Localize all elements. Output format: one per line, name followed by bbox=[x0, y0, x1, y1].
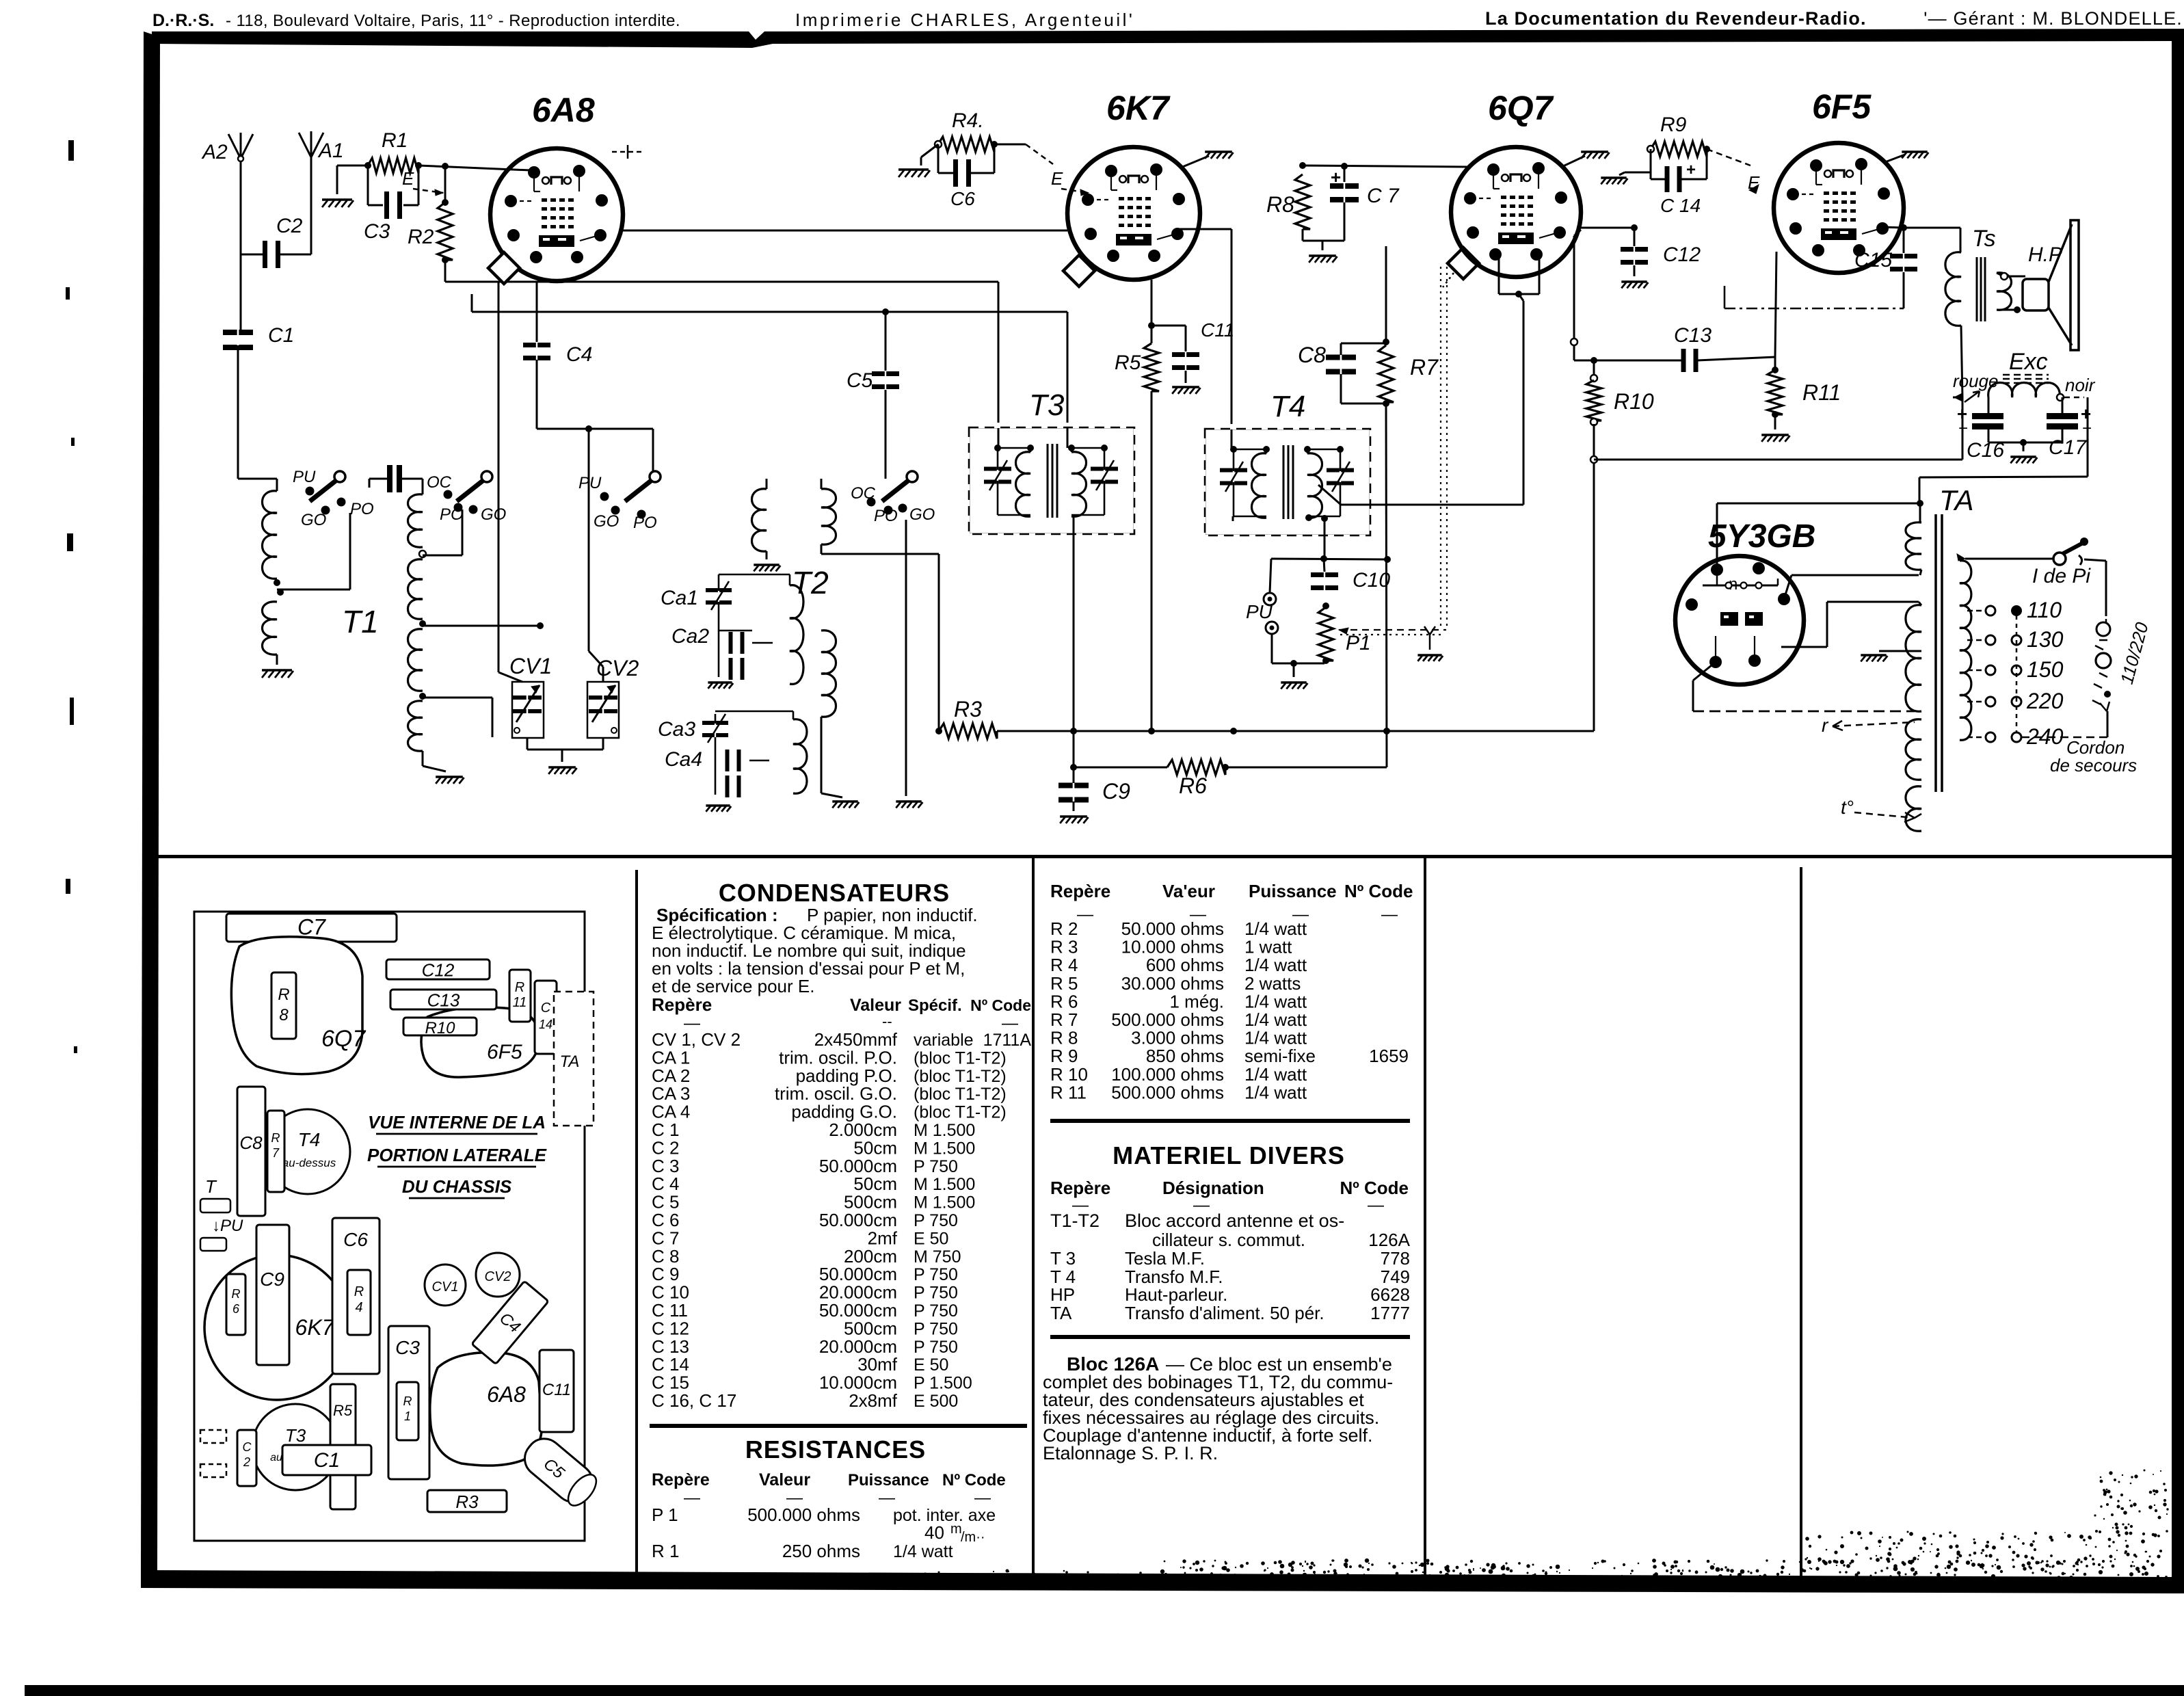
rule under R table bbox=[1050, 1119, 1410, 1123]
svg-text:R: R bbox=[403, 1394, 412, 1408]
svg-text:M 750: M 750 bbox=[914, 1247, 961, 1267]
svg-text:RESISTANCES: RESISTANCES bbox=[745, 1435, 926, 1463]
svg-text:I de Pi: I de Pi bbox=[2032, 565, 2091, 587]
svg-text:R7: R7 bbox=[1410, 355, 1439, 380]
ground under T1 primary bbox=[262, 669, 292, 672]
svg-text:130: 130 bbox=[2027, 627, 2064, 652]
coil T1 secondary group4 bbox=[408, 701, 423, 751]
svg-text:R 2: R 2 bbox=[1050, 918, 1078, 939]
chassis tube 6Q7 blob bbox=[231, 937, 362, 1074]
svg-text:P 750: P 750 bbox=[914, 1157, 958, 1176]
svg-text:R1: R1 bbox=[382, 129, 408, 152]
svg-text:de secours: de secours bbox=[2050, 755, 2137, 776]
tube 6F5 bbox=[1774, 143, 1904, 273]
svg-text:Vaʹeur: Vaʹeur bbox=[1162, 881, 1215, 901]
wire T2 right to R3 riser bbox=[821, 544, 823, 554]
svg-text:C: C bbox=[541, 1001, 551, 1016]
svg-text:6: 6 bbox=[232, 1302, 240, 1316]
divider vertical condensateurs/resistances bbox=[1032, 858, 1035, 1578]
svg-text:R: R bbox=[354, 1284, 364, 1299]
rule under materiel divers bbox=[1050, 1335, 1410, 1339]
svg-text:C6: C6 bbox=[343, 1229, 368, 1250]
chassis capacitor C9 bbox=[256, 1225, 289, 1365]
svg-text:Spécif.: Spécif. bbox=[908, 996, 962, 1015]
switch I de Pi bbox=[1965, 558, 2054, 560]
svg-text:R 3: R 3 bbox=[1050, 937, 1078, 957]
diamond grid cap 6Q7 bbox=[1448, 248, 1479, 279]
svg-text:TA: TA bbox=[1050, 1303, 1072, 1323]
svg-text:R4.: R4. bbox=[952, 109, 984, 132]
wire R9 to 6F5 grid bbox=[1707, 149, 1750, 165]
svg-text:C 14: C 14 bbox=[1660, 195, 1701, 216]
svg-text:Nº Code: Nº Code bbox=[942, 1471, 1006, 1489]
svg-text:T 3: T 3 bbox=[1050, 1248, 1076, 1269]
transformer Ts secondary coil bbox=[1997, 273, 2012, 310]
transformer T4 core bbox=[1283, 445, 1285, 519]
svg-text:2 watts: 2 watts bbox=[1244, 973, 1301, 994]
svg-text:1/4 watt: 1/4 watt bbox=[1244, 1028, 1307, 1048]
switch PU/GO/PO left bbox=[334, 471, 345, 482]
svg-text:CV2: CV2 bbox=[596, 656, 639, 680]
tube 6A8 bbox=[490, 148, 623, 281]
svg-text:P 750: P 750 bbox=[914, 1265, 958, 1284]
speaker HP voice coil bbox=[2023, 279, 2049, 310]
svg-text:1/4 watt: 1/4 watt bbox=[1244, 1064, 1307, 1085]
variable capacitor CV1 bbox=[512, 682, 544, 738]
svg-text:GO: GO bbox=[594, 512, 619, 531]
wire 6A8 screen bus to T3 bbox=[444, 260, 447, 282]
svg-text:—: — bbox=[1368, 1196, 1384, 1215]
divider vertical chassis/condensateurs bbox=[635, 870, 638, 1578]
svg-text:R3: R3 bbox=[954, 697, 982, 721]
svg-text:Imprimerie CHARLES, Argent: Imprimerie CHARLES, Argenteuilʹ bbox=[795, 10, 1134, 30]
transformer Ts primary coil bbox=[1945, 252, 1961, 326]
coil T2 right upper bbox=[821, 479, 823, 489]
transformer TA core bbox=[1934, 514, 1937, 792]
svg-text:110: 110 bbox=[2027, 598, 2062, 622]
svg-text:6A8: 6A8 bbox=[487, 1382, 526, 1407]
svg-text:250 ohms: 250 ohms bbox=[782, 1541, 860, 1561]
svg-text:850 ohms: 850 ohms bbox=[1146, 1046, 1224, 1066]
resistor R11 bbox=[1774, 357, 1776, 370]
variable capacitor CV2 bbox=[587, 682, 619, 738]
bus R10 to output cathode bbox=[1594, 459, 1962, 461]
svg-text:1: 1 bbox=[404, 1409, 411, 1423]
ground top right of 6K7 bbox=[1181, 156, 1209, 168]
svg-text:VUE INTERNE DE LA: VUE INTERNE DE LA bbox=[368, 1112, 546, 1132]
svg-text:T: T bbox=[205, 1176, 217, 1197]
ground under R11 bbox=[1761, 434, 1789, 436]
svg-text:A2: A2 bbox=[201, 141, 228, 163]
svg-text:C12: C12 bbox=[422, 960, 455, 981]
transformer T3 secondary trimmer bbox=[1091, 467, 1104, 471]
ground right of T2 bbox=[896, 800, 921, 803]
border frame top bar bbox=[152, 29, 2184, 48]
wire 6Q7 cathode bracket bbox=[1498, 254, 1500, 294]
transformer TA primary winding bbox=[1957, 554, 1965, 561]
svg-text:1 watt: 1 watt bbox=[1244, 937, 1292, 957]
border frame bottom bar bbox=[141, 1570, 2184, 1593]
svg-text:R10: R10 bbox=[1614, 389, 1654, 414]
svg-text:variable: variable bbox=[914, 1031, 974, 1050]
svg-text:(bloc T1-T2): (bloc T1-T2) bbox=[914, 1103, 1007, 1122]
svg-text:P 1.500: P 1.500 bbox=[914, 1374, 972, 1393]
svg-text:R 6: R 6 bbox=[1050, 991, 1078, 1011]
svg-text:/m··: /m·· bbox=[961, 1530, 985, 1545]
svg-text:100.000 ohms: 100.000 ohms bbox=[1111, 1064, 1224, 1085]
coil T1 antenna primary lower bbox=[262, 602, 277, 654]
divider horizontal main bbox=[152, 855, 2172, 858]
wire 5Y3 cathode to TA bbox=[1781, 646, 1827, 648]
switch PU/GO/PO mid bbox=[650, 471, 661, 482]
svg-text:600 ohms: 600 ohms bbox=[1146, 955, 1224, 975]
svg-text:14: 14 bbox=[539, 1018, 552, 1031]
svg-text:1659: 1659 bbox=[1369, 1046, 1409, 1066]
wire C16 C17 ground bar bbox=[1988, 442, 2062, 444]
wire switch down to voltage selector bbox=[2105, 561, 2107, 616]
chassis tube 6A8 blob bbox=[430, 1353, 542, 1466]
dashed plus mark right of 6A8 bbox=[612, 151, 643, 153]
svg-text:6K7: 6K7 bbox=[1106, 89, 1171, 127]
capacitor C3 bbox=[367, 165, 369, 205]
capacitor C6 bbox=[937, 144, 940, 173]
chassis resistor R1 bbox=[397, 1382, 418, 1440]
wire CV ground bbox=[527, 738, 529, 750]
svg-text:PU: PU bbox=[578, 474, 602, 492]
svg-text:C2: C2 bbox=[276, 215, 303, 237]
svg-text:1/4 watt: 1/4 watt bbox=[1244, 1082, 1307, 1102]
svg-text:C11: C11 bbox=[542, 1381, 571, 1399]
svg-text:Etalonnage S. P. I. R.: Etalonnage S. P. I. R. bbox=[1043, 1443, 1218, 1463]
svg-text:R 1: R 1 bbox=[652, 1541, 679, 1561]
potentiometer P1 bbox=[1322, 602, 1329, 609]
speaker HP cone bbox=[2049, 224, 2072, 282]
svg-text:R9: R9 bbox=[1660, 114, 1687, 136]
svg-text:PORTION LATERALE: PORTION LATERALE bbox=[367, 1145, 547, 1165]
svg-text:au-dessus: au-dessus bbox=[282, 1156, 336, 1169]
svg-text:HP: HP bbox=[1050, 1284, 1075, 1305]
svg-text:M 1.500: M 1.500 bbox=[914, 1193, 975, 1213]
svg-text:D.·R.·S.: D.·R.·S. bbox=[152, 11, 214, 30]
wire diamond down to CV1 bbox=[498, 282, 500, 672]
svg-text:Désignation: Désignation bbox=[1162, 1178, 1264, 1198]
wire R3 bus bbox=[997, 730, 1594, 732]
shielded wire to P1 wiper bbox=[1339, 629, 1446, 631]
svg-text:P 750: P 750 bbox=[914, 1319, 958, 1338]
svg-text:Puissance: Puissance bbox=[1249, 881, 1337, 901]
svg-text:Tesla M.F.: Tesla M.F. bbox=[1125, 1248, 1205, 1269]
svg-text:1 még.: 1 még. bbox=[1170, 991, 1225, 1011]
svg-text:R6: R6 bbox=[1179, 773, 1207, 798]
chassis capacitor C3 bbox=[388, 1326, 429, 1479]
capacitor C7 electrolytic bbox=[1303, 165, 1467, 167]
coil T1 secondary group1 bbox=[422, 479, 424, 494]
svg-text:30.000 ohms: 30.000 ohms bbox=[1121, 973, 1224, 994]
chassis dashed terminals left bbox=[200, 1430, 226, 1443]
wire node to SW3 pivot bbox=[652, 429, 654, 472]
svg-text:R: R bbox=[278, 985, 289, 1004]
svg-text:8: 8 bbox=[279, 1006, 289, 1024]
svg-text:CONDENSATEURS: CONDENSATEURS bbox=[719, 879, 950, 907]
svg-text:150: 150 bbox=[2027, 657, 2064, 682]
svg-text:C9: C9 bbox=[1102, 779, 1130, 804]
ground under T2 lower coil bbox=[832, 800, 857, 803]
resistor R4 bbox=[938, 137, 994, 152]
svg-text:semi-fixe: semi-fixe bbox=[1244, 1046, 1316, 1066]
svg-text:↓PU: ↓PU bbox=[212, 1217, 243, 1235]
svg-text:cillateur s. commut.: cillateur s. commut. bbox=[1152, 1230, 1305, 1250]
wire R1 to 6A8 grid bbox=[418, 165, 531, 170]
svg-text:5Y3GB: 5Y3GB bbox=[1708, 518, 1815, 555]
svg-text:C 16, C 17: C 16, C 17 bbox=[652, 1390, 736, 1411]
svg-text:E 50: E 50 bbox=[914, 1355, 948, 1375]
svg-text:C 7: C 7 bbox=[1367, 185, 1400, 207]
left margin scan marks bbox=[68, 140, 74, 161]
chassis resistor R10 bbox=[403, 1018, 477, 1035]
svg-text:(bloc T1-T2): (bloc T1-T2) bbox=[914, 1085, 1007, 1104]
chassis transformer TA dashed bbox=[554, 992, 594, 1126]
svg-text:H.P: H.P bbox=[2028, 243, 2062, 266]
svg-text:240: 240 bbox=[2026, 724, 2064, 749]
capacitor C5 bbox=[885, 312, 887, 371]
svg-text:C7: C7 bbox=[297, 915, 326, 940]
svg-text:Valeur: Valeur bbox=[759, 1470, 810, 1489]
transformer TA secondary winding 2 bbox=[1919, 602, 1921, 605]
chassis resistor R4 bbox=[347, 1270, 371, 1335]
switch OC/PO/GO bbox=[481, 471, 492, 482]
resistor R2 bbox=[438, 202, 453, 260]
ground under Ca2 bbox=[708, 681, 732, 684]
svg-text:Haut-parleur.: Haut-parleur. bbox=[1125, 1284, 1227, 1305]
svg-text:t°: t° bbox=[1841, 797, 1854, 818]
transformer T4 box bbox=[1205, 429, 1370, 535]
svg-text:R 8: R 8 bbox=[1050, 1028, 1078, 1048]
svg-text:R5: R5 bbox=[333, 1402, 353, 1419]
transformer TA secondary winding 4 bbox=[1906, 786, 1921, 832]
capacitor C1 bbox=[223, 330, 237, 335]
svg-text:7: 7 bbox=[272, 1146, 280, 1160]
svg-text:DU CHASSIS: DU CHASSIS bbox=[402, 1176, 512, 1197]
transformer T4 primary trimmer bbox=[1220, 468, 1233, 473]
svg-text:1/4 watt: 1/4 watt bbox=[893, 1542, 953, 1561]
svg-text:E: E bbox=[402, 168, 414, 189]
coil T2 grid left bbox=[766, 479, 768, 489]
svg-text:T4: T4 bbox=[298, 1129, 321, 1150]
svg-text:C6: C6 bbox=[950, 188, 975, 209]
svg-text:R: R bbox=[271, 1131, 280, 1145]
resistor R1 bbox=[368, 158, 418, 173]
chassis capacitor C12 bbox=[386, 959, 490, 979]
chassis resistor R11 bbox=[509, 970, 531, 1022]
chassis capacitor C6 bbox=[332, 1218, 379, 1374]
TA primary taps bbox=[1967, 610, 1984, 612]
svg-text:R: R bbox=[232, 1287, 241, 1301]
ground left of R4 bbox=[921, 144, 938, 157]
svg-text:P 1: P 1 bbox=[652, 1505, 678, 1525]
svg-text:+: + bbox=[1686, 161, 1696, 179]
capacitor C12 bbox=[1634, 228, 1636, 246]
transformer T3 box bbox=[969, 427, 1134, 534]
ground left of R9 bbox=[1625, 172, 1651, 174]
chassis capacitor C1 bbox=[282, 1445, 371, 1475]
svg-text:Transfo d'aliment. 50 pér.: Transfo d'aliment. 50 pér. bbox=[1125, 1303, 1324, 1323]
wire C4 to oscillator node bbox=[536, 360, 538, 429]
svg-text:T1: T1 bbox=[342, 604, 379, 639]
capacitor C2 bbox=[241, 254, 263, 256]
wire A1 down bbox=[310, 176, 312, 254]
svg-text:4: 4 bbox=[355, 1300, 362, 1315]
svg-text:Repère: Repère bbox=[652, 994, 712, 1015]
svg-text:Nº Code: Nº Code bbox=[1344, 881, 1413, 901]
ground arrow shield bbox=[1424, 626, 1435, 650]
chassis tube 6F5 blob bbox=[421, 1007, 539, 1077]
capacitor C13 bbox=[1681, 349, 1686, 372]
svg-text:P 750: P 750 bbox=[914, 1301, 958, 1321]
svg-text:R 9: R 9 bbox=[1050, 1046, 1078, 1066]
divider vertical resistances/empty bbox=[1424, 858, 1426, 1580]
chassis tube 6K7 blob bbox=[204, 1255, 349, 1400]
svg-text:6Q7: 6Q7 bbox=[321, 1026, 366, 1052]
svg-text:Nº Code: Nº Code bbox=[1340, 1178, 1409, 1198]
ground under CV bbox=[548, 766, 576, 769]
svg-text:1711A: 1711A bbox=[983, 1031, 1032, 1050]
svg-text:R 4: R 4 bbox=[1050, 955, 1078, 975]
svg-text:−: − bbox=[1958, 419, 1968, 438]
wire R6 to AVC riser bbox=[1225, 767, 1387, 769]
svg-text:MATERIEL DIVERS: MATERIEL DIVERS bbox=[1113, 1141, 1345, 1169]
svg-text:R 5: R 5 bbox=[1050, 973, 1078, 994]
svg-text:M 1.500: M 1.500 bbox=[914, 1139, 975, 1158]
wire A2 down bbox=[240, 176, 242, 252]
series capacitor black bars bbox=[387, 465, 392, 492]
svg-text:C1: C1 bbox=[314, 1449, 340, 1472]
svg-text:ʹ— Gérant : M. BLONDELLE.: ʹ— Gérant : M. BLONDELLE. bbox=[1923, 8, 2183, 29]
capacitor C10 bbox=[1324, 559, 1324, 572]
ground under R1 bbox=[322, 198, 352, 201]
svg-text:P1: P1 bbox=[1346, 632, 1371, 654]
wire C1 down to T1 bbox=[237, 345, 239, 479]
svg-text:R3: R3 bbox=[455, 1492, 479, 1512]
chassis capacitor C7 bbox=[226, 914, 397, 942]
capacitor C14 bbox=[1650, 149, 1652, 179]
phono jack PU lower bbox=[1266, 622, 1278, 634]
svg-text:C13: C13 bbox=[1674, 324, 1712, 347]
svg-text:P 750: P 750 bbox=[914, 1338, 958, 1357]
wire switch right down bbox=[905, 520, 907, 796]
svg-text:Ca2: Ca2 bbox=[671, 625, 709, 648]
svg-text:6Q7: 6Q7 bbox=[1488, 89, 1554, 127]
svg-text:6A8: 6A8 bbox=[532, 91, 595, 129]
wire C2 to C1 bbox=[240, 252, 242, 331]
wire node to CV2 bbox=[588, 429, 590, 651]
svg-text:50.000 ohms: 50.000 ohms bbox=[1121, 918, 1224, 939]
svg-text:TA: TA bbox=[560, 1052, 580, 1071]
svg-text:Repère: Repère bbox=[1050, 881, 1110, 901]
coil T1 secondary group2 bbox=[408, 559, 423, 619]
rule under condensateurs bbox=[650, 1424, 1027, 1428]
svg-text:GO: GO bbox=[481, 505, 506, 524]
svg-text:C15: C15 bbox=[1854, 249, 1892, 271]
transformer T3 primary coil bbox=[1015, 452, 1030, 517]
svg-text:GO: GO bbox=[301, 511, 326, 529]
svg-text:Repère: Repère bbox=[1050, 1178, 1110, 1198]
wire T3 secondary bottom to C9 bbox=[1073, 516, 1075, 783]
svg-text:T3: T3 bbox=[1029, 388, 1065, 422]
ground under T1 secondary bbox=[422, 751, 424, 766]
transformer TA secondary HT winding bbox=[1919, 503, 1921, 522]
svg-text:220: 220 bbox=[2026, 689, 2064, 713]
svg-text:—: — bbox=[684, 1489, 700, 1507]
svg-text:—: — bbox=[974, 1489, 991, 1507]
chassis capacitor C14 bbox=[535, 981, 557, 1054]
scan noise speckles bbox=[821, 1470, 2169, 1591]
capacitor C17 electrolytic bbox=[2087, 397, 2089, 400]
chassis capacitor C2 bbox=[237, 1430, 256, 1486]
wire 5Y3 plate top line bbox=[1716, 503, 1718, 570]
svg-text:R10: R10 bbox=[425, 1019, 455, 1037]
svg-text:Bloc accord antenne et os-: Bloc accord antenne et os- bbox=[1125, 1210, 1344, 1231]
svg-text:1/4 watt: 1/4 watt bbox=[1244, 1009, 1307, 1030]
wire PU jack to C10 node bbox=[1270, 559, 1271, 593]
svg-text:—: — bbox=[879, 1489, 895, 1507]
antenna A2 bbox=[240, 159, 242, 179]
chassis resistor R7 bbox=[267, 1111, 284, 1192]
capacitor C4 bbox=[536, 281, 538, 342]
wire 6Q7 top to ground bbox=[1563, 156, 1585, 166]
svg-text:T4: T4 bbox=[1270, 390, 1305, 423]
transformer TA secondary winding 3 bbox=[1906, 719, 1921, 780]
svg-text:- 118, Boulevard Voltaire,: - 118, Boulevard Voltaire, Paris, 11° - … bbox=[226, 12, 680, 30]
chassis resistor R8 bbox=[271, 972, 296, 1039]
chassis capacitor C8 bbox=[237, 1087, 265, 1216]
ground tap TA winding 2 bbox=[1879, 650, 1921, 652]
svg-text:E 500: E 500 bbox=[914, 1392, 958, 1411]
TA tap selector dashed link bbox=[2016, 615, 2018, 733]
chassis outline box bbox=[194, 912, 585, 1541]
svg-text:CV1: CV1 bbox=[432, 1280, 459, 1295]
resistor R5 bbox=[1151, 280, 1153, 343]
svg-text:C: C bbox=[243, 1440, 252, 1454]
5Y3GB internal wires bbox=[1715, 636, 1716, 662]
svg-text:noir: noir bbox=[2065, 375, 2096, 395]
svg-text:1/4 watt: 1/4 watt bbox=[1244, 918, 1307, 939]
wire T1 tap to PO contact bbox=[277, 589, 350, 591]
transformer T4 secondary trimmer bbox=[1327, 468, 1340, 473]
chassis resistor R3 bbox=[427, 1490, 507, 1512]
svg-text:C8: C8 bbox=[1298, 343, 1326, 367]
svg-text:R8: R8 bbox=[1266, 192, 1294, 217]
svg-text:6F5: 6F5 bbox=[1812, 88, 1872, 126]
svg-text:Valeur: Valeur bbox=[850, 996, 901, 1015]
capacitor C11 bbox=[1151, 325, 1186, 327]
svg-text:M 1.500: M 1.500 bbox=[914, 1175, 975, 1194]
svg-text:1/4 watt: 1/4 watt bbox=[1244, 991, 1307, 1011]
svg-text:rouge: rouge bbox=[1953, 371, 1999, 391]
svg-text:PU: PU bbox=[293, 468, 316, 486]
wire Ts secondary to speaker coil bbox=[1997, 273, 2002, 276]
wire Ts bottom down bbox=[1961, 326, 1962, 397]
svg-text:Ca4: Ca4 bbox=[665, 748, 702, 771]
svg-text:—: — bbox=[1002, 1014, 1018, 1033]
svg-text:R11: R11 bbox=[1802, 380, 1841, 405]
coil T1 secondary group3 bbox=[408, 629, 423, 691]
wire 6F5 cathode to R11 bbox=[1775, 252, 1776, 357]
wire plate to C13 bus bbox=[1574, 230, 1581, 236]
svg-text:C13: C13 bbox=[427, 990, 460, 1011]
transformer T4 secondary coil bbox=[1307, 453, 1322, 518]
bottom page rule bbox=[25, 1685, 2184, 1696]
svg-text:10.000 ohms: 10.000 ohms bbox=[1121, 937, 1224, 957]
